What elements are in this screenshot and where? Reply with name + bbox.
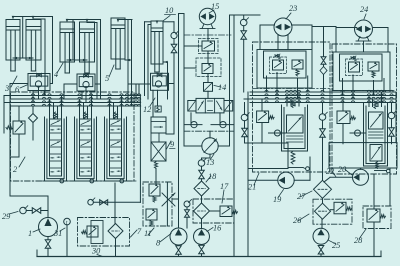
svg-text:26: 26 (293, 216, 302, 225)
manifold A (248, 143, 288, 169)
svg-text:1: 1 (28, 229, 32, 238)
suction valve pump 8 (176, 246, 182, 255)
bus line P4 (10, 105, 140, 107)
filter 17 (194, 203, 210, 219)
wire - drops to bus (127, 84, 129, 103)
main pressure line left (9, 84, 11, 197)
wire - center link pair 1 (22, 17, 24, 59)
cylinder group 3 - prop cylinder B (26, 20, 41, 61)
wire - cyl 10 top arrow (156, 20, 159, 24)
wire - block 12 down (152, 90, 154, 117)
wire - inter-block drop (323, 27, 325, 57)
wire - motor 24 loop (336, 27, 357, 29)
bus line R2 (250, 95, 396, 97)
hydraulic motor 24 (355, 20, 373, 38)
wire - block to bus drops B (342, 79, 344, 96)
directional valve stack 2 (84, 112, 87, 119)
wire - to block 12 (128, 83, 151, 85)
wire - left riser A (3, 96, 5, 134)
wire - center link pair 2 (72, 20, 74, 61)
wire - pump 19 lines (248, 179, 278, 181)
wire - cyl 10 second loop (147, 25, 149, 100)
svg-text:28: 28 (354, 236, 363, 245)
wire - pump 20 inlet (330, 176, 353, 178)
relief valve 11b (146, 209, 157, 220)
pilot stack A (291, 101, 294, 108)
check valve a (184, 124, 202, 126)
shutoff valve 18 line (199, 170, 205, 179)
gauge suction (88, 199, 94, 205)
bus line P3 (4, 102, 140, 104)
cylinder group 4 - prop cylinder C (60, 22, 75, 62)
check valve block 6 left (28, 74, 50, 91)
shutoff trunk (241, 31, 247, 40)
svg-text:24: 24 (360, 5, 368, 14)
svg-text:6: 6 (15, 85, 20, 94)
filter 17 dashed box (193, 199, 234, 223)
shutoff B left (320, 129, 326, 138)
centerline dash 2 (184, 130, 234, 132)
shutoff B right (389, 128, 395, 137)
solenoid box (204, 83, 213, 92)
cylinder group 4 - prop cylinder D (80, 22, 95, 62)
check valve b (211, 124, 234, 126)
dash line under block B (332, 90, 396, 92)
wire - 11 to pump line (166, 182, 168, 226)
filter 27 (314, 180, 332, 198)
spring below stack A (291, 151, 295, 164)
directional valve stack 1 (54, 112, 57, 119)
shutoff A left (242, 128, 248, 137)
trunk line C (247, 92, 249, 257)
svg-text:10: 10 (165, 6, 174, 15)
wire - motor 23 to block (277, 35, 279, 50)
svg-text:7: 7 (137, 227, 142, 236)
pump 1 (39, 218, 58, 237)
relief valve A (257, 111, 269, 123)
relief valve 26 (334, 202, 346, 214)
svg-text:15: 15 (211, 2, 219, 11)
dash line under block A (253, 88, 331, 90)
svg-text:30: 30 (91, 247, 101, 256)
bus crossing bumps right (265, 90, 268, 92)
svg-text:20: 20 (338, 165, 347, 174)
wire - cyl 10 left loop (144, 22, 146, 96)
bus line P1 (4, 95, 140, 97)
right edge line (389, 168, 391, 206)
bus line P2 (10, 98, 140, 100)
gauge B left (319, 114, 326, 121)
wire - gauge line down to valve 9 (173, 84, 175, 135)
manifold B (329, 143, 397, 168)
svg-text:29: 29 (2, 212, 11, 221)
pump 8 (170, 228, 187, 245)
wire - bus end riser (139, 96, 141, 203)
wire - stack 2 bus drops (79, 99, 81, 119)
gauge - line 10 (171, 32, 177, 38)
pilot valve 9 upper (151, 117, 166, 133)
wire - main line to pump 1 (10, 195, 48, 197)
filter 7 diamond (108, 224, 123, 239)
unloader block 11 dashed (143, 182, 172, 226)
pump 20 (353, 169, 369, 185)
wire - valve 6 to main line (10, 83, 28, 85)
wire - filter link (201, 196, 203, 203)
relief valve 15b (202, 64, 213, 74)
wire - cyl 10 right to gauge line (163, 21, 174, 23)
svg-text:5: 5 (105, 74, 109, 83)
shutoff valve 29 line (32, 208, 41, 214)
wire - pump 1 suction (47, 237, 49, 240)
suction line horizontal (93, 201, 140, 203)
wire - cyl 5 top feed (118, 19, 132, 21)
gauge B right (388, 112, 395, 119)
unloader 28 dashed box (363, 206, 391, 229)
wire - pair 2 inner loop (87, 22, 97, 24)
svg-text:14: 14 (218, 83, 226, 92)
filter 18 (194, 181, 209, 196)
svg-text:11: 11 (144, 229, 152, 238)
relief valve in box 7 (91, 221, 103, 244)
wire - stack B drops (368, 96, 370, 107)
wire - 28 connections (373, 174, 375, 209)
trunk line B (233, 15, 235, 257)
wire - to pump 25 (321, 219, 323, 228)
wire - stubs to left line (184, 45, 202, 47)
svg-text:22: 22 (326, 167, 334, 176)
shutoff valve on line 10 (171, 44, 177, 53)
relief valve 15a (202, 41, 215, 51)
gauge pump 8 (184, 201, 190, 207)
svg-text:17: 17 (220, 182, 229, 191)
pilot centerline (40, 180, 136, 182)
spring below 9 (154, 162, 157, 169)
dashed group border 2 (11, 92, 135, 181)
relief valve left (13, 121, 25, 134)
wire - motor 15 column (207, 29, 209, 42)
cylinder 5 (111, 18, 125, 59)
check valve A (269, 132, 287, 134)
wire - bottom link pair 2 with arrows (67, 59, 87, 61)
relief block 23 inner (264, 51, 307, 78)
wire - 9 link (151, 133, 159, 142)
pilot stack B (374, 102, 377, 109)
pump 25 (313, 228, 329, 244)
pump 8 pressure line (178, 14, 180, 229)
throttle X valve 11 (162, 193, 175, 206)
hydraulic motor 23 (274, 18, 292, 36)
relief valve 24b (368, 62, 379, 71)
wire - motor 13 ports (184, 145, 202, 147)
gauge trunk (240, 19, 247, 26)
valve 14 end actuators (188, 101, 196, 112)
trunk line A (229, 15, 231, 146)
relief valve 23a (273, 60, 284, 70)
centerline dash (184, 34, 231, 36)
svg-text:23: 23 (289, 4, 297, 13)
shutoff valve suction (100, 200, 108, 205)
relief valve 24a (349, 62, 360, 72)
bus crossing bumps left (31, 94, 34, 96)
relief valve B (337, 111, 350, 124)
motor 15 mount (202, 24, 204, 29)
wire - valve 14 outlets (190, 113, 192, 125)
wire - link A to B (312, 26, 336, 28)
wire - top crossbar pair 1 (13, 16, 53, 18)
svg-text:19: 19 (273, 195, 282, 204)
wire - cyl 10 bottom port (163, 61, 168, 63)
gauge A left (241, 114, 248, 121)
wire - filter 7 vertical (114, 183, 116, 224)
filter 26 (315, 203, 331, 219)
suction valve pump 16 (199, 245, 205, 254)
wire - bus right end down (395, 92, 397, 143)
filter diamond small (29, 114, 38, 123)
check valve block 6 right (77, 74, 95, 91)
wire - valve 6a outlet drops (32, 91, 34, 103)
svg-text:16: 16 (213, 224, 222, 233)
suction valve pump 25 (318, 246, 324, 255)
tank line 30 (37, 256, 381, 258)
svg-text:21: 21 (248, 183, 256, 192)
left supply vertical (183, 14, 185, 147)
thermometer 31 (64, 218, 71, 225)
pump 16 (194, 229, 210, 245)
motor 24 mount (358, 37, 360, 42)
svg-text:3: 3 (4, 84, 9, 93)
relief block 23 outer (257, 50, 312, 89)
hydraulic motor 15 (199, 8, 215, 24)
shutoff pump 8 line (185, 210, 190, 218)
suction valve pump 1 (45, 240, 51, 249)
wire - pair 2 loop line (87, 19, 101, 21)
wire - valve 6b right port (95, 83, 101, 85)
gauge 29 (20, 207, 27, 214)
check inter-block (320, 67, 327, 75)
wire - block to bus drops A (266, 76, 268, 92)
check valve block 12 (151, 73, 169, 90)
relief block 24 inner (340, 54, 383, 81)
bus line R1 (250, 91, 396, 93)
svg-text:18: 18 (208, 172, 217, 181)
relief valve 23b (292, 60, 303, 69)
wire - filter link B (322, 198, 324, 203)
variable motor 13 (202, 138, 218, 154)
relief valve 17 (220, 206, 232, 217)
wire - stack A drops (286, 96, 288, 107)
svg-text:2: 2 (13, 165, 17, 174)
wire - valve 6b outlet drops (81, 91, 83, 99)
relief valve 11a (149, 184, 160, 196)
wire - cyl 5 loop verticals (127, 20, 129, 85)
wire - top link left (179, 13, 185, 15)
cooler box 9 (151, 142, 166, 161)
relief valve 28 (367, 209, 380, 222)
group 21 dashed border (253, 42, 331, 172)
wire - top connector (230, 14, 261, 16)
gauge motor 13 line (198, 160, 205, 167)
relief block 24 outer (333, 52, 390, 91)
wire - pair 1 loop to valve 6 (52, 17, 54, 84)
svg-text:8: 8 (156, 239, 161, 248)
wire - pair 1 inner loop (33, 18, 45, 20)
directional valve 14 (196, 98, 224, 113)
group 22 dashed border (332, 44, 397, 174)
wire - to pump 16 (201, 219, 203, 229)
filter 26 dashed box (313, 199, 352, 224)
wire - valve 6b left port (64, 83, 77, 85)
cylinder group 3 - prop cylinder A (6, 20, 20, 61)
spring below stack B (376, 162, 379, 169)
bus line R4 (250, 102, 396, 104)
pump 19 (278, 172, 294, 188)
wire - bottom link pair 1 with arrows (13, 57, 33, 59)
filter 7 dashed box (78, 218, 130, 247)
wire - top crossbar pair 2 (67, 19, 87, 21)
directional valve stack 3 (114, 112, 117, 119)
wire - motor 23 loop (260, 24, 275, 26)
wire - cyl 5 bottom port (125, 59, 132, 61)
check valve B (350, 132, 366, 134)
cylinder 10 (151, 21, 163, 64)
bus line R3 (244, 98, 396, 100)
wire - stack 1 bus drops (49, 99, 51, 119)
wire - stack 3 bus drops (109, 99, 111, 119)
shutoff inter-block (321, 57, 326, 65)
